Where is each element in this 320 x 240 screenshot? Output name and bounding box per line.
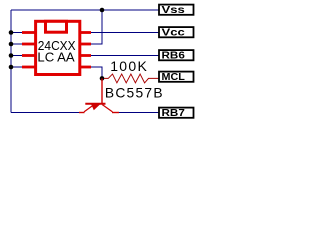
wire: collector to RB7 terminal (119, 112, 159, 114)
wire: drop from top wire to pin 7 (91, 10, 102, 44)
wire: left vertical bus (Vss net) (10, 10, 12, 113)
svg-text:Vcc: Vcc (162, 27, 185, 39)
terminal Vss (159, 4, 194, 16)
terminal Vcc (159, 27, 194, 39)
junction dot pin4 (9, 65, 14, 70)
emitter arrow (91, 104, 100, 110)
svg-text:MCL: MCL (162, 71, 186, 83)
wire: pin 5 down to resistor node (91, 67, 102, 78)
svg-text:RB7: RB7 (162, 107, 185, 119)
wire: pin 6 to RB6 terminal (91, 55, 159, 57)
transistor Q1 BC557B (79, 78, 119, 112)
emitter lead (79, 112, 85, 114)
terminal MCL (159, 71, 194, 83)
wire: pin 8 to Vcc terminal (91, 32, 159, 34)
wire: pin 1 stub link (11, 32, 24, 34)
pin 5 stub (80, 66, 91, 69)
IC U1 24CXX body (36, 21, 80, 74)
pin 7 stub (80, 43, 91, 46)
wire: bottom left to emitter (11, 112, 80, 114)
collector lead (112, 112, 119, 114)
junction dot top Vss (100, 8, 105, 13)
junction dot pin3 (9, 53, 14, 58)
wire: pin 2 stub link (11, 43, 24, 45)
svg-text:Vss: Vss (162, 4, 185, 16)
collector diagonal (102, 105, 112, 112)
base bar (85, 103, 105, 105)
base lead (101, 78, 103, 103)
wire: pin 3 stub link (11, 55, 24, 57)
svg-text:LC AA: LC AA (37, 50, 74, 65)
pin 6 stub (80, 54, 91, 57)
svg-text:BC557B: BC557B (105, 86, 164, 101)
pin 1 stub (22, 31, 36, 34)
emitter diagonal (84, 105, 94, 112)
pin 3 stub (22, 54, 36, 57)
svg-text:100K: 100K (110, 58, 148, 74)
wire: pin 4 stub link (11, 66, 24, 68)
junction dot pin1 (9, 30, 14, 35)
pin 4 stub (22, 66, 36, 69)
pin 2 stub (22, 43, 36, 46)
junction dot pin2 (9, 42, 14, 47)
resistor R1 100K (104, 74, 159, 83)
terminal RB6 (159, 50, 194, 62)
svg-text:RB6: RB6 (162, 50, 185, 62)
pin 8 stub (80, 31, 91, 34)
junction dot resistor node (100, 76, 105, 81)
wire: top horizontal to Vss terminal (11, 9, 159, 11)
terminal RB7 (159, 107, 194, 119)
